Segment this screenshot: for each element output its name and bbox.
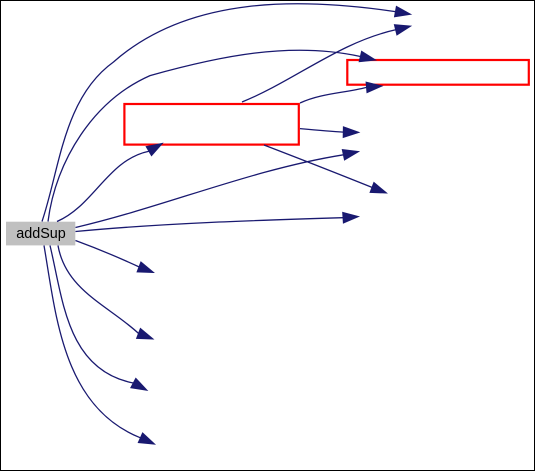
wire edge addSup->f1 (a1)	[42, 4, 395, 222]
node box1 (red, truncated)	[124, 104, 298, 145]
node addSup (current function)	[6, 222, 75, 246]
arrowhead edge addSup->f10 (a10)	[137, 329, 153, 340]
node box2 (red, truncated)	[347, 60, 529, 85]
svg-text:addSup: addSup	[16, 226, 66, 242]
arrowhead edge addSup->f8 (a8)	[343, 212, 359, 223]
arrowhead edge addSup->f11 (a11)	[131, 378, 147, 390]
arrowhead edge addSup->box1 (a13)	[146, 143, 162, 155]
wire edge addSup->f12 (a12)	[44, 246, 140, 438]
arrowhead edge addSup->f6 (a6)	[342, 150, 358, 160]
arrowhead edge addSup->f12 (a12)	[138, 433, 154, 444]
arrowhead edge box1->box2 (a4)	[366, 82, 382, 93]
arrowhead edge box1->f7 (a7)	[370, 183, 386, 194]
wire edge box1->f2 (a2)	[242, 30, 396, 102]
wire edge addSup->f9 (a9)	[76, 241, 140, 267]
wire edge addSup->box2 (a3)	[48, 50, 360, 221]
arrowhead edge box1->f2 (a2)	[394, 25, 410, 35]
wire edge box1->f5 (a5)	[300, 129, 343, 133]
wire edge addSup->f11 (a11)	[50, 246, 133, 384]
arrowhead edge addSup->f1 (a1)	[395, 6, 411, 16]
wire edge addSup->box1 (a13)	[57, 151, 149, 221]
wire edge box1->f7 (a7)	[264, 145, 372, 187]
arrowhead edge addSup->f9 (a9)	[137, 262, 153, 273]
wire edge box1->box2 (a4)	[300, 87, 367, 103]
wire edge addSup->f6 (a6)	[76, 155, 344, 228]
wire edge addSup->f8 (a8)	[76, 218, 344, 232]
wire edge addSup->f10 (a10)	[58, 246, 139, 334]
arrowhead edge addSup->box2 (a3)	[359, 51, 375, 61]
arrowhead edge box1->f5 (a5)	[343, 127, 359, 138]
